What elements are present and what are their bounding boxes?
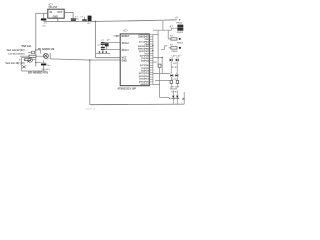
svg-text:OUT: OUT (57, 11, 63, 14)
svg-text:PB0/4: PB0/4 (176, 22, 183, 25)
svg-text:XTAL2: XTAL2 (122, 42, 130, 45)
svg-text:GND: GND (53, 15, 59, 18)
svg-text:with BC328 (4V): with BC328 (4V) (8, 53, 25, 56)
svg-text:(INT0)PD2: (INT0)PD2 (139, 76, 150, 78)
svg-text:RESET: RESET (122, 36, 130, 38)
svg-text:LD? LD?: LD? LD? (172, 56, 182, 58)
svg-text:Vext min.9V (6V): Vext min.9V (6V) (7, 49, 25, 52)
svg-text:(RXD)PD0: (RXD)PD0 (139, 81, 150, 83)
svg-text:10u: 10u (42, 26, 46, 28)
svg-text:(TXD)PD1: (TXD)PD1 (139, 79, 149, 81)
svg-text:GND: GND (122, 60, 127, 62)
svg-text:VCC: VCC (122, 57, 127, 59)
svg-text:IN: IN (50, 11, 53, 14)
svg-text:(ICP)PD6: (ICP)PD6 (140, 65, 150, 67)
svg-text:PB0/3: PB0/3 (177, 42, 184, 44)
svg-text:(T0)PD4: (T0)PD4 (141, 59, 150, 62)
svg-text:PB0/3: PB0/3 (177, 32, 184, 34)
svg-text:schem. v1: schem. v1 (85, 109, 96, 111)
svg-text:PB0/2: PB0/2 (172, 51, 179, 53)
svg-text:R? R?: R? R? (171, 67, 178, 69)
svg-text:10u: 10u (75, 19, 79, 21)
svg-text:(T0)PD4: (T0)PD4 (141, 70, 150, 73)
svg-text:IC?: IC? (124, 29, 129, 33)
svg-text:(BD-682): (BD-682) (42, 69, 51, 71)
svg-text:+5V: +5V (87, 23, 91, 25)
svg-text:PNP darl.: PNP darl. (22, 46, 33, 48)
svg-text:(INT1)PD3: (INT1)PD3 (139, 73, 150, 75)
svg-text:(A0)PD7: (A0)PD7 (141, 83, 150, 86)
svg-text:78L05Z: 78L05Z (48, 5, 57, 9)
svg-text:XTAL1: XTAL1 (122, 49, 130, 52)
svg-text:Vext min.13V (9V): Vext min.13V (9V) (5, 62, 24, 65)
svg-text:(T1)PD5: (T1)PD5 (141, 68, 150, 70)
svg-text:AT90S2313-10P: AT90S2313-10P (118, 87, 137, 90)
svg-text:1N4148: 1N4148 (170, 88, 178, 91)
